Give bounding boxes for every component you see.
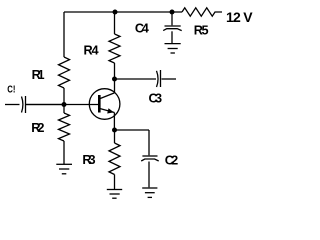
svg-text:R3: R3	[82, 153, 95, 167]
svg-text:R5: R5	[194, 23, 209, 37]
svg-text:12 V: 12 V	[226, 9, 253, 25]
svg-text:C4: C4	[135, 21, 149, 35]
svg-text:R1: R1	[32, 68, 45, 82]
svg-text:R4: R4	[84, 44, 99, 58]
svg-text:C2: C2	[165, 154, 178, 168]
svg-text:C!: C!	[7, 85, 15, 96]
svg-text:C3: C3	[149, 92, 163, 106]
svg-text:R2: R2	[31, 121, 44, 135]
